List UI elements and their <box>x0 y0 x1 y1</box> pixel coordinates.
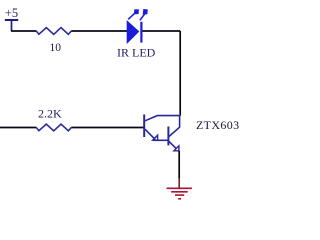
IR LED D1 triangle <box>127 21 138 43</box>
svg-text:2.2K: 2.2K <box>38 107 62 121</box>
Q1 emitter arrowhead <box>153 135 158 140</box>
Q2 collector <box>169 116 180 137</box>
wire Q2 emitter to ground <box>178 151 180 179</box>
wire base from left edge to resistor R2 <box>0 127 36 129</box>
Q1 emitter <box>145 129 155 139</box>
ground stem <box>178 178 180 188</box>
svg-text:ZTX603: ZTX603 <box>196 118 239 132</box>
wire Q1 emitter to Q2 base <box>153 139 168 141</box>
Q2 emitter <box>169 141 177 149</box>
Q2 emitter arrowhead <box>174 146 179 151</box>
wire from R2 to transistor base <box>71 127 143 129</box>
ground bar 2 <box>171 191 188 193</box>
LED emission arrow 2 <box>140 10 147 21</box>
transistor Q1 ZTX603 darlington first stage base bar <box>143 115 145 138</box>
ground bar 4 <box>178 198 181 200</box>
transistor Q2 darlington second stage base bar <box>167 127 169 146</box>
power terminal +5 bar <box>5 19 18 21</box>
power terminal stem <box>11 20 13 31</box>
IR LED cathode bar <box>140 22 142 43</box>
svg-text:+5: +5 <box>5 6 18 20</box>
svg-text:IR LED: IR LED <box>117 45 156 59</box>
Q1 collector <box>145 116 180 121</box>
wire vertical to collector node <box>179 31 181 116</box>
resistor R1 zigzag <box>36 28 71 35</box>
ground bar 3 <box>175 194 184 196</box>
svg-text:10: 10 <box>50 42 62 54</box>
resistor R2 zigzag <box>36 124 71 131</box>
ground bar 1 <box>167 187 192 189</box>
wire from LED cathode to corner <box>143 30 181 32</box>
wire from +5 terminal to resistor R1 <box>11 30 36 32</box>
wire from R1 to LED anode <box>71 30 127 32</box>
LED emission arrow 1 <box>128 10 138 20</box>
